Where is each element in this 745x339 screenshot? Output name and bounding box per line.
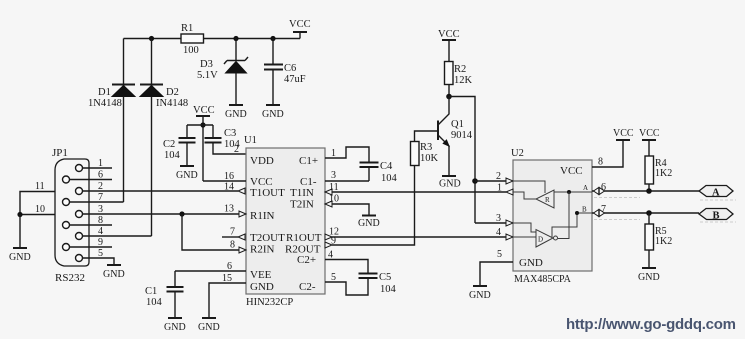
watermark URL text [566, 316, 736, 333]
U2 pin 7 wire line B [592, 204, 699, 215]
U1 pin 14 arrow T1OUT [224, 182, 245, 195]
wire top rail left [124, 38, 182, 40]
connector JP1 DB9 shell [52, 147, 89, 284]
svg-text:4: 4 [496, 227, 501, 238]
JP1 pin 6 stub [70, 170, 113, 181]
U2 driver buffer D [536, 230, 558, 248]
U2 internal wire DI to D [513, 236, 536, 238]
wire JP1 pin4 to D2 [83, 235, 152, 237]
svg-text:2: 2 [496, 171, 501, 182]
svg-text:MAX485CPA: MAX485CPA [514, 274, 572, 285]
ground under Q1 emitter [439, 176, 461, 190]
svg-text:3: 3 [331, 170, 336, 181]
JP1 pin 2 label [98, 181, 103, 192]
capacitor C1 [145, 271, 184, 318]
U1 pin labels left column [250, 155, 285, 293]
wire TXD branch to R2IN [182, 214, 239, 250]
node RE DE junction [472, 178, 478, 184]
U1 pin 13 arrow R1IN [224, 204, 246, 218]
U1 pin 15 wire GND [209, 273, 246, 318]
power VCC above R4 [639, 128, 660, 156]
svg-text:R1OUT: R1OUT [286, 232, 322, 244]
power VCC above C2 C3 [193, 105, 215, 181]
svg-text:B: B [582, 206, 587, 214]
node TXD branch [179, 211, 184, 216]
U2 internal wire A line [554, 184, 592, 194]
U1 pin labels right column [285, 155, 322, 293]
svg-text:1K2: 1K2 [655, 236, 672, 247]
svg-text:R: R [545, 196, 550, 204]
connector flag B [699, 209, 736, 223]
wire JP1 pin3 to U1 R1IN [83, 213, 240, 215]
transistor Q1 9014 [438, 97, 473, 177]
svg-text:104: 104 [381, 173, 398, 184]
U2 pin 2 arrow RE [496, 171, 513, 184]
svg-text:VCC: VCC [289, 19, 311, 30]
U1 pin 8 arrow R2IN [230, 240, 246, 254]
svg-text:T2IN: T2IN [290, 199, 314, 211]
svg-text:A: A [583, 184, 588, 192]
U1 pin 10 wire T2IN to ground [325, 194, 369, 216]
wire top rail right [204, 38, 301, 40]
svg-text:VCC: VCC [613, 128, 634, 139]
svg-text:104: 104 [164, 150, 181, 161]
svg-text:9014: 9014 [451, 130, 473, 141]
svg-text:HIN232CP: HIN232CP [246, 297, 293, 308]
ground under pin 10 [358, 216, 380, 230]
svg-text:1: 1 [497, 183, 502, 194]
JP1 pin 5 wire to ground [83, 248, 125, 280]
svg-text:R1: R1 [181, 23, 193, 34]
JP1 pin 4 label [98, 226, 103, 237]
svg-text:GND: GND [519, 257, 543, 269]
ground shield [9, 215, 31, 264]
ground under C1 [164, 318, 186, 333]
svg-text:RS232: RS232 [55, 272, 85, 284]
svg-text:8: 8 [230, 240, 235, 251]
svg-text:VCC: VCC [438, 29, 460, 40]
svg-text:B: B [713, 211, 720, 222]
svg-text:GND: GND [469, 290, 491, 301]
svg-text:C3: C3 [224, 128, 236, 139]
svg-text:7: 7 [230, 227, 235, 238]
node C6 junction [270, 36, 275, 41]
U1 pin 6 wire VEE [175, 261, 246, 272]
node R5 to B [646, 210, 652, 216]
capacitor C5 [359, 272, 397, 295]
svg-text:12K: 12K [454, 75, 473, 86]
svg-text:GND: GND [9, 252, 31, 263]
wire Q1 base to R3 [415, 131, 439, 142]
ground under R5 [638, 268, 660, 283]
diode D2 [140, 39, 188, 237]
U2 receiver buffer R [536, 190, 554, 208]
wire JP1 pin7 to D1 [70, 201, 124, 203]
capacitor C2 [163, 125, 196, 166]
U2 internal wire B line [552, 206, 592, 238]
svg-text:R3: R3 [420, 142, 432, 153]
JP1 pin 9 stub [70, 237, 113, 248]
svg-text:10: 10 [35, 204, 45, 215]
svg-text:8: 8 [598, 157, 603, 168]
U1 pin 5 wire C2- [325, 272, 368, 295]
wire JP1 pin2 to U1 T1OUT [83, 190, 239, 192]
U1 pin 12 arrow R1OUT [325, 227, 339, 241]
svg-text:GND: GND [225, 109, 247, 120]
svg-text:A: A [712, 188, 720, 199]
svg-text:R2IN: R2IN [250, 244, 275, 256]
svg-text:GND: GND [250, 281, 274, 293]
svg-text:4: 4 [328, 250, 333, 261]
ground under C2 [176, 166, 198, 181]
svg-text:3: 3 [496, 213, 501, 224]
ground under C6 [262, 105, 284, 120]
svg-text:14: 14 [224, 182, 234, 193]
svg-text:T1OUT: T1OUT [250, 187, 285, 199]
svg-text:GND: GND [358, 218, 380, 229]
diode D3 zener 5.1V [197, 39, 248, 106]
svg-text:GND: GND [103, 269, 125, 280]
svg-text:47uF: 47uF [284, 74, 306, 85]
power VCC pin8 [613, 128, 634, 140]
svg-text:1: 1 [331, 148, 336, 159]
bidirectional mark pin 7 [594, 209, 641, 219]
resistor R2 [445, 62, 473, 97]
JP1 pin 7 label [98, 192, 103, 203]
wire collector node to U2 control [449, 97, 475, 224]
svg-text:VCC: VCC [639, 128, 660, 139]
svg-text:C5: C5 [379, 272, 391, 283]
svg-text:http://www.go-gddq.com: http://www.go-gddq.com [566, 316, 736, 333]
JP1 pin 8 stub [70, 215, 113, 226]
U2 internal wire RE to R [513, 181, 545, 193]
ground under pin 15 [198, 318, 220, 333]
ground under D3 [225, 105, 247, 120]
svg-text:U1: U1 [244, 135, 257, 146]
svg-text:C6: C6 [284, 63, 296, 74]
svg-text:100: 100 [183, 45, 199, 56]
svg-text:GND: GND [198, 322, 220, 333]
svg-text:GND: GND [176, 170, 198, 181]
resistor R5 [645, 213, 672, 268]
wire to U2 pin3 [475, 222, 506, 224]
power VCC above R2 [438, 29, 460, 62]
JP1 pin circles left column 6 7 8 9 [63, 176, 70, 251]
svg-text:C2+: C2+ [297, 254, 316, 266]
svg-text:GND: GND [638, 272, 660, 283]
diode D1 [88, 39, 135, 203]
svg-text:15: 15 [222, 273, 232, 284]
svg-text:5: 5 [98, 248, 103, 259]
svg-text:104: 104 [380, 284, 397, 295]
svg-text:1K2: 1K2 [655, 168, 672, 179]
svg-text:5.1V: 5.1V [197, 70, 218, 81]
wire to U2 pin2 [475, 180, 506, 182]
wire JP1 shield pin 10 [20, 204, 55, 215]
svg-text:VCC: VCC [560, 165, 583, 177]
op-amp U2 MAX485CPA body [511, 148, 592, 285]
svg-text:U2: U2 [511, 148, 524, 159]
svg-text:D: D [538, 236, 543, 244]
svg-text:6: 6 [227, 261, 232, 272]
node R4 to A [646, 188, 652, 194]
capacitor C4 [360, 161, 398, 184]
node VCC distribution [187, 122, 213, 127]
U2 pin 3 arrow DE [496, 213, 513, 226]
svg-text:5: 5 [497, 249, 502, 260]
resistor R3 [411, 142, 439, 166]
svg-text:GND: GND [164, 322, 186, 333]
U2 pin 1 arrow RO [497, 183, 513, 196]
svg-text:GND: GND [439, 179, 461, 190]
wire U2 RO to U1 T1IN [332, 191, 506, 193]
svg-text:C1+: C1+ [299, 155, 318, 167]
svg-text:VDD: VDD [250, 155, 274, 167]
svg-text:GND: GND [262, 109, 284, 120]
svg-text:T2OUT: T2OUT [250, 232, 285, 244]
ground under pin 5 [469, 286, 491, 301]
U2 pin 4 arrow DI [496, 227, 513, 240]
svg-text:T1IN: T1IN [290, 187, 314, 199]
U1 pin 3 wire from C4 [325, 170, 369, 181]
capacitor C6 47uF [264, 39, 306, 106]
svg-text:C4: C4 [380, 161, 393, 172]
svg-text:16: 16 [224, 171, 234, 182]
svg-text:1: 1 [98, 158, 103, 169]
svg-text:11: 11 [35, 181, 45, 192]
svg-text:IN4148: IN4148 [156, 98, 188, 109]
svg-text:104: 104 [146, 297, 163, 308]
svg-text:13: 13 [224, 204, 234, 215]
U2 internal wire RO from R [513, 192, 536, 199]
svg-text:JP1: JP1 [52, 147, 68, 159]
U1 pin 7 stub T2OUT [222, 227, 245, 241]
wire JP1 shield pin 11 [20, 181, 55, 215]
node Q1 collector junction [446, 94, 452, 100]
svg-text:R1IN: R1IN [250, 210, 275, 222]
U2 pin 8 wire VCC [592, 140, 623, 168]
capacitor C3 [205, 125, 247, 154]
svg-text:C2-: C2- [299, 281, 316, 293]
svg-text:D1: D1 [98, 87, 111, 98]
wire junction node D2/top [149, 36, 154, 41]
wire R1OUT to U2 DI [332, 236, 506, 238]
JP1 pin 3 label [98, 204, 103, 215]
resistor R1 [181, 23, 204, 56]
connector flag A [699, 186, 736, 201]
bidirectional mark pin 6 [594, 187, 641, 197]
U1 pin 16 wire VCC [203, 171, 246, 182]
U1 pin 1 wire to C4 [325, 147, 369, 163]
U2 pin 5 wire GND [480, 249, 513, 286]
power VCC top right [289, 19, 311, 39]
svg-text:8: 8 [98, 215, 103, 226]
svg-text:D2: D2 [166, 87, 179, 98]
svg-text:D3: D3 [200, 59, 213, 70]
node shield junction [17, 212, 22, 217]
JP1 pin 1 stub [83, 158, 113, 169]
svg-text:10K: 10K [420, 153, 439, 164]
svg-text:5: 5 [331, 272, 336, 283]
U1 pin 2 number [234, 144, 239, 155]
svg-text:2: 2 [234, 144, 239, 155]
U1 pin 11 arrow T1IN [325, 182, 339, 195]
wire R2OUT up to R3 [332, 166, 415, 246]
U2 internal wire D out to A [558, 192, 569, 239]
U2 pin 6 wire line A [592, 182, 699, 193]
op-amp U1 HIN232CP body [244, 135, 325, 308]
svg-text:C2: C2 [163, 139, 175, 150]
JP1 pin circles right column 1 2 3 4 5 [76, 165, 83, 262]
svg-text:10: 10 [329, 194, 339, 205]
svg-text:VCC: VCC [193, 105, 215, 116]
node D3 junction [233, 36, 238, 41]
svg-text:Q1: Q1 [451, 119, 464, 130]
svg-text:VEE: VEE [250, 269, 272, 281]
svg-text:1N4148: 1N4148 [88, 98, 122, 109]
resistor R4 [645, 156, 672, 191]
svg-text:6: 6 [98, 170, 103, 181]
svg-text:9: 9 [98, 237, 103, 248]
svg-text:C1: C1 [145, 286, 157, 297]
U1 pin 9 arrow R2OUT [325, 236, 336, 249]
U1 pin 4 wire to C5 [325, 250, 368, 274]
U2 internal wire DE to D [513, 223, 536, 232]
svg-text:R2: R2 [454, 64, 466, 75]
